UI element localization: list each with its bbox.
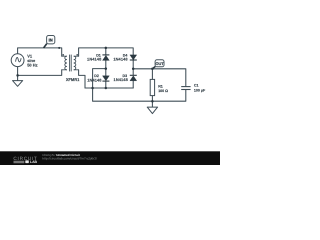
svg-text:1N4148: 1N4148: [87, 77, 102, 82]
wire V1 bottom to transformer primary bottom: [18, 70, 62, 76]
svg-text:IN: IN: [49, 38, 53, 43]
transformer XFMR1: [62, 54, 79, 71]
wire junction left and down to ground rail: [93, 69, 186, 102]
junction V1 bottom node: [16, 74, 19, 77]
wire D2 cathode stub to rail: [105, 81, 107, 88]
wire R1 bottom to ground rail: [151, 96, 153, 102]
svg-text:1N4148: 1N4148: [87, 56, 102, 61]
wire D1 cathode stub: [105, 48, 107, 55]
wire D4 cathode to OUT junction: [132, 60, 134, 75]
svg-text:R1: R1: [158, 84, 163, 88]
voltage source V1: [11, 54, 24, 67]
capacitor C1: [181, 87, 190, 90]
diode D3: [130, 75, 137, 81]
junction on IN wire: [58, 47, 60, 49]
wire transformer secondary bottom to AC2 rail: [79, 70, 85, 88]
wire V1 top to transformer primary top: [18, 48, 62, 56]
wire AC2 rail: [85, 87, 133, 89]
svg-text:http://circuitlab.com/circuit/: http://circuitlab.com/circuit/7m7rc2jkh3…: [42, 156, 97, 160]
wire ground stub under R1: [151, 101, 153, 107]
footer logo CIRCUIT LAB: [13, 156, 37, 164]
wire OUT node to capacitor C1 top: [133, 69, 186, 86]
svg-text:100 Ω: 100 Ω: [158, 89, 168, 93]
wire OUT junction down to R1: [151, 69, 153, 80]
diode D4: [130, 55, 137, 60]
ground under R1: [147, 107, 157, 114]
resistor R1: [150, 79, 154, 95]
diode D2: [102, 76, 109, 81]
svg-text:50 Hz: 50 Hz: [27, 62, 37, 67]
svg-text:C1: C1: [194, 84, 199, 88]
wire transformer secondary top rail to D4: [79, 48, 134, 56]
junction D1-D2 ground node: [105, 67, 108, 70]
junction OUT node at R1: [151, 68, 154, 71]
svg-text:1N4148: 1N4148: [114, 77, 129, 82]
junction ground rail at R1: [151, 100, 154, 103]
footer bar: [0, 151, 220, 165]
svg-text:1N4148: 1N4148: [113, 57, 128, 62]
junction AC2 rail at D2: [105, 87, 108, 90]
junction AC2 rail crossing: [91, 87, 94, 90]
node OUT flag: [152, 60, 164, 69]
svg-text:LAB: LAB: [30, 160, 38, 164]
junction D4-D3 OUT node: [132, 68, 135, 71]
diode D1: [102, 55, 109, 61]
svg-text:XFMR1: XFMR1: [66, 77, 80, 82]
ground under V1: [12, 81, 22, 87]
svg-text:OUT: OUT: [155, 61, 164, 66]
wire V1 bottom to ground stub: [17, 66, 19, 80]
node IN flag: [44, 35, 55, 47]
wire D1 anode to junction: [105, 60, 107, 76]
svg-text:100 µF: 100 µF: [194, 88, 206, 92]
junction AC1 rail at D1: [105, 47, 108, 50]
wire D3 anode stub to rail: [132, 81, 134, 88]
